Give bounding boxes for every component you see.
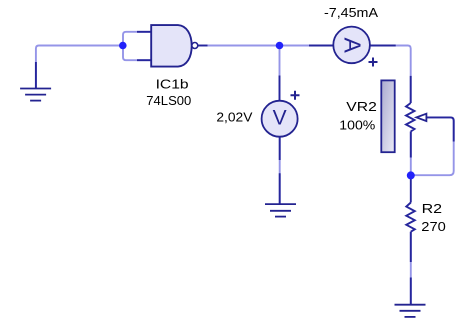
voltmeter M2 circle (262, 101, 298, 137)
wire: dark segment of wiper loop (426, 117, 453, 141)
ground GND1 (left, NAND input) (20, 89, 51, 101)
node: junction dot at NAND input (119, 42, 127, 50)
svg-text:IC1b: IC1b (156, 77, 189, 92)
svg-text:2,02V: 2,02V (216, 110, 252, 125)
wire: ammeter to VR2 top base (light) (370, 46, 411, 104)
voltmeter + polarity mark (291, 91, 300, 100)
svg-text:270: 270 (421, 219, 446, 234)
ammeter M1 circle (333, 27, 370, 64)
svg-text:R2: R2 (422, 201, 443, 216)
wire: dark segments of NAND input stubs (137, 32, 151, 60)
svg-text:V: V (273, 107, 287, 130)
wire: dark segments voltmeter-ground (279, 137, 281, 204)
svg-text:-7,45mA: -7,45mA (324, 5, 378, 20)
wire: dark segment below VR2 (410, 132, 412, 158)
ground GND3 (below R2) (395, 305, 426, 317)
node: junction dot VR2 bottom (407, 171, 415, 179)
svg-text:100%: 100% (339, 118, 375, 133)
wire: dark segment above voltmeter (279, 76, 281, 101)
svg-text:VR2: VR2 (346, 99, 377, 114)
resistor R2 zigzag (406, 203, 415, 232)
wire: dark segment, vertical to left ground (35, 62, 37, 89)
wire: R2 bottom lead base (light) (410, 232, 412, 305)
svg-text:A: A (340, 38, 366, 54)
potentiometer VR2 wiper arrow (416, 114, 426, 121)
wire: dark segment above VR2 (410, 76, 412, 103)
wire: dark segment before ammeter (309, 45, 333, 47)
potentiometer VR2 zigzag (406, 103, 415, 132)
NAND gate IC1b body (151, 25, 192, 67)
ammeter + polarity mark (369, 58, 378, 67)
wire: dark segment at NAND output (198, 45, 208, 47)
ground GND2 (below voltmeter) (265, 204, 296, 217)
wire: dark segment right of ammeter (370, 45, 396, 47)
NAND gate output bubble (192, 43, 198, 49)
wire: NAND output net base (light) to ammeter (198, 45, 334, 47)
wire: wiper feedback loop (light base) (411, 117, 454, 175)
node: junction dot voltmeter tee (276, 42, 284, 50)
wire: voltmeter branch base (light) (279, 46, 281, 101)
wire: voltmeter to ground base (light) (279, 137, 281, 204)
wire: R2 top lead (dark) (410, 175, 412, 202)
potentiometer VR2 slider bar (381, 80, 394, 152)
wire: input net base (light) from left ground up to NAND inputs (36, 32, 151, 89)
wire: dark segments of R2 bottom lead (410, 232, 412, 305)
svg-text:74LS00: 74LS00 (146, 93, 191, 108)
wire: VR2 bottom lead base (light) (410, 132, 412, 176)
